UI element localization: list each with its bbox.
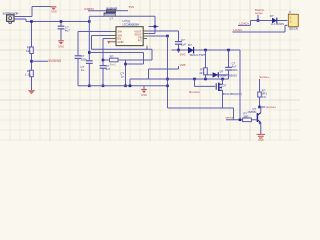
wire base bbox=[226, 119, 257, 121]
wire x89 lower bbox=[88, 63, 90, 85]
svg-text:4u7: 4u7 bbox=[65, 29, 70, 33]
connector J2 LED load bbox=[288, 11, 298, 31]
inductor L1 10uH bbox=[104, 13, 115, 16]
wire source drop bbox=[222, 90, 224, 108]
capacitor C4 1u bbox=[86, 61, 93, 64]
wire x167 long branch bbox=[167, 36, 169, 108]
pin 5 PG bbox=[143, 38, 147, 40]
resistor R6 56R bbox=[243, 118, 252, 122]
wire x205 branch bbox=[205, 50, 207, 79]
svg-text:Sense+: Sense+ bbox=[259, 75, 270, 79]
wire bend down bbox=[25, 19, 27, 22]
wire pin1 to x78 branch bbox=[78, 31, 111, 33]
svg-text:L?: L? bbox=[110, 16, 114, 20]
capacitor C5 4u7 bbox=[100, 66, 107, 69]
svg-text:VFB: VFB bbox=[180, 63, 186, 67]
ground GND below Q2 bbox=[257, 134, 265, 138]
svg-text:LOAD+: LOAD+ bbox=[239, 21, 249, 25]
wire collector bbox=[260, 107, 262, 113]
junction 5V rail / VIN riser bbox=[88, 20, 91, 23]
junction collector node bbox=[258, 106, 261, 109]
junction MOSFET drain bbox=[221, 78, 224, 81]
svg-text:LTC3426ESM: LTC3426ESM bbox=[123, 23, 140, 27]
wire C1 bottom bbox=[60, 29, 62, 40]
diode D1 SMAJ schottky bbox=[188, 47, 194, 54]
junction SW stub bbox=[154, 25, 157, 28]
wire inductor to SW riser bbox=[115, 15, 155, 17]
svg-text:LL4148WS: LL4148WS bbox=[271, 23, 284, 26]
wire y108 return bbox=[168, 107, 234, 109]
svg-text:1u: 1u bbox=[81, 68, 85, 72]
wire x148 drop bbox=[148, 69, 150, 79]
junction divider tap on 5V rail bbox=[30, 20, 33, 23]
wire feedback row bbox=[103, 59, 152, 61]
wire sense mid bbox=[259, 97, 261, 107]
wire bead left bbox=[88, 10, 106, 12]
svg-text:Remote: Remote bbox=[189, 90, 200, 94]
svg-text:D?: D? bbox=[220, 70, 224, 74]
wire x103 lower bbox=[102, 68, 104, 86]
junction x103 / ground rail bbox=[102, 85, 105, 88]
ground GND below C1 bbox=[58, 41, 64, 45]
wire bead right bbox=[116, 10, 128, 12]
wire VIN riser to inductor bbox=[89, 15, 104, 17]
wire SW riser down bbox=[154, 16, 156, 33]
junction gate branch bbox=[193, 78, 196, 81]
wire FB to x167 branch bbox=[149, 35, 168, 37]
ground GND of rail bbox=[141, 89, 147, 93]
junction x89 / rail B bbox=[88, 51, 91, 54]
junction base wire / x240 bbox=[239, 119, 242, 122]
junction divider tap bbox=[30, 60, 33, 63]
wire 5V rail bbox=[26, 21, 89, 23]
wire drain bbox=[222, 79, 224, 84]
svg-text:GND: GND bbox=[258, 139, 264, 141]
wire emitter down bbox=[260, 123, 262, 135]
wire rail A bbox=[92, 48, 153, 50]
svg-text:SMAJ LTSPS: SMAJ LTSPS bbox=[190, 53, 206, 57]
wire C3 bottom bbox=[178, 44, 180, 50]
junction C3 / VOUT row bbox=[177, 49, 180, 52]
op-amp U1 LTC3426ESM boost converter bbox=[116, 19, 143, 45]
svg-text:D?: D? bbox=[270, 14, 274, 18]
svg-text:4u7: 4u7 bbox=[106, 67, 111, 71]
wire rail A elbow bbox=[151, 49, 153, 60]
junction R chain bottom bbox=[204, 78, 207, 81]
wire jack sleeve bbox=[14, 18, 26, 20]
zener diode D3 1N5819 row bbox=[206, 74, 229, 76]
wire sense top bbox=[259, 79, 261, 92]
wire C6 top bbox=[228, 50, 230, 67]
wire x130 drop to ground rail bbox=[129, 79, 131, 86]
pin 6 FB bbox=[143, 35, 149, 37]
pin 7 VOUT bbox=[143, 33, 149, 35]
junction x130 / ground rail bbox=[129, 85, 132, 88]
resistor R3 1k bbox=[110, 58, 119, 62]
pin 4 GND bbox=[111, 41, 117, 43]
wire VOUT to C3 branch bbox=[149, 30, 179, 32]
wire y79 LED rail bbox=[130, 78, 229, 80]
wire gate bbox=[195, 85, 216, 87]
svg-text:J?: J? bbox=[288, 11, 291, 15]
wire x91 branch down bbox=[91, 36, 93, 50]
pin 8 VOUT bbox=[143, 30, 149, 32]
resistor R2 11k bbox=[30, 70, 34, 77]
svg-text:1n: 1n bbox=[121, 75, 125, 79]
wire x78 upper bbox=[77, 32, 79, 56]
pin 2 VIN bbox=[111, 35, 117, 37]
junction VOUT row / R4 bbox=[204, 49, 207, 52]
junction VOUT row / C6 bbox=[227, 49, 230, 52]
wire to net label bbox=[32, 60, 49, 62]
junction FB branch bbox=[166, 35, 169, 38]
svg-text:C0G: C0G bbox=[232, 68, 239, 72]
pin 3 EN bbox=[111, 38, 117, 40]
wire x240 long drop bbox=[239, 50, 241, 120]
ground GND below divider bbox=[28, 90, 35, 94]
wire stub label bbox=[178, 50, 180, 53]
ground GND at jack shield bbox=[51, 7, 57, 10]
pin GND bottom stub bbox=[146, 46, 148, 50]
wire x89 upper bbox=[88, 16, 90, 61]
transistor Q1 BSS138 MOSFET bbox=[216, 83, 222, 91]
wire elbow to connector pin2 bbox=[284, 25, 286, 32]
wire LED+ to connector bbox=[251, 20, 288, 22]
junction x125 / ground rail bbox=[124, 85, 127, 88]
svg-text:D?: D? bbox=[188, 43, 192, 47]
wire pin2 to x91 branch bbox=[92, 35, 111, 37]
svg-text:2k7: 2k7 bbox=[199, 71, 204, 75]
capacitor C2 100n bbox=[75, 56, 82, 59]
svg-text:GND: GND bbox=[51, 9, 57, 13]
wire y69 feedback bbox=[149, 68, 179, 70]
svg-text:2N5551: 2N5551 bbox=[248, 110, 258, 114]
wire LOAD+ bbox=[238, 24, 251, 26]
wire to GND symbol bbox=[32, 6, 51, 8]
svg-text:1%: 1% bbox=[262, 95, 267, 99]
wire stub Board+ bbox=[257, 15, 259, 21]
junction 5V rail / C1 bbox=[60, 20, 63, 23]
wire x103 upper bbox=[102, 39, 104, 66]
wire x78 lower bbox=[77, 58, 79, 85]
svg-text:LOAD-: LOAD- bbox=[233, 28, 242, 32]
wire gate drop bbox=[194, 79, 196, 86]
svg-text:1uF: 1uF bbox=[181, 42, 186, 46]
junction x167 / ground rail bbox=[166, 85, 169, 88]
wire pin3 to x103 branch bbox=[103, 38, 111, 40]
svg-text:BSS138W(SOT): BSS138W(SOT) bbox=[223, 92, 242, 96]
wire stub at SW riser bbox=[149, 26, 159, 28]
resistor R5 0R1 bbox=[258, 92, 262, 97]
svg-text:11k: 11k bbox=[26, 49, 31, 53]
diode D2 LED series bbox=[272, 18, 277, 24]
wire between divider resistors bbox=[31, 54, 33, 71]
svg-text:1.1k: 1.1k bbox=[25, 72, 31, 76]
transistor Q2 2N5551 BJT bbox=[257, 113, 261, 125]
resistor R4 2k7 bbox=[204, 68, 208, 75]
junction x125 / rail B return bbox=[124, 63, 127, 66]
wire elbow LOAD+ bbox=[250, 21, 252, 26]
svg-text:GND: GND bbox=[118, 40, 124, 44]
ground mini GND at pin 4 bbox=[107, 41, 110, 44]
wire rail B return bbox=[126, 63, 144, 65]
junction x89 / ground rail bbox=[88, 85, 91, 88]
svg-text:C?: C? bbox=[181, 38, 185, 42]
svg-text:Res1: Res1 bbox=[110, 62, 117, 66]
svg-text:GND: GND bbox=[58, 45, 64, 49]
svg-text:(sense): (sense) bbox=[266, 105, 276, 109]
svg-text:GND: GND bbox=[141, 93, 147, 97]
junction Board+ stub bbox=[257, 19, 260, 22]
wire rail B bbox=[89, 52, 143, 54]
svg-text:R?: R? bbox=[110, 55, 114, 59]
svg-text:5VSENS: 5VSENS bbox=[49, 59, 62, 63]
junction x103 / feedback wire bbox=[102, 59, 105, 62]
svg-text:LED CON: LED CON bbox=[289, 28, 298, 31]
wire x125 branch bbox=[125, 60, 127, 86]
wire ground rail bbox=[78, 85, 168, 87]
capacitor C6 4n7 bbox=[225, 67, 232, 70]
svg-text:SW: SW bbox=[118, 30, 123, 34]
capacitor C1 4u7 bbox=[58, 26, 65, 29]
wire jack tip to GND riser bbox=[14, 16, 32, 18]
svg-text:5V0: 5V0 bbox=[129, 5, 135, 9]
wire x233 drop bbox=[233, 108, 235, 120]
wire VOUT2 to SW riser bbox=[149, 33, 155, 35]
wire rail B elbow bbox=[143, 53, 145, 65]
wire VOUT row bbox=[172, 49, 241, 51]
wire divider bottom bbox=[31, 77, 33, 90]
svg-text:5V0: 5V0 bbox=[180, 53, 186, 57]
wire LOAD- bbox=[233, 31, 286, 33]
wire GND stub bbox=[143, 86, 145, 89]
wire C3 top bbox=[178, 31, 180, 42]
pin 1 SW bbox=[111, 31, 117, 33]
wire divider top bbox=[31, 22, 33, 48]
wire C1 top bbox=[60, 22, 62, 27]
svg-text:PG: PG bbox=[138, 38, 142, 42]
wire C6 bottom bbox=[228, 70, 230, 79]
wire stub sense label bbox=[260, 106, 266, 108]
connector J1 5V barrel jack bbox=[3, 12, 20, 24]
svg-text:56R: 56R bbox=[243, 115, 248, 119]
wire riser up bbox=[31, 7, 33, 17]
wire stub up to label bbox=[178, 66, 180, 69]
svg-text:sense: sense bbox=[255, 11, 263, 15]
svg-text:sense-: sense- bbox=[225, 116, 234, 120]
capacitor C3 1uF bbox=[175, 42, 182, 45]
resistor R1 11k bbox=[30, 47, 34, 54]
wire stub pin2 bbox=[285, 24, 288, 26]
svg-text:Q?: Q? bbox=[222, 84, 226, 88]
junction x167 / mid wire bbox=[166, 78, 169, 81]
